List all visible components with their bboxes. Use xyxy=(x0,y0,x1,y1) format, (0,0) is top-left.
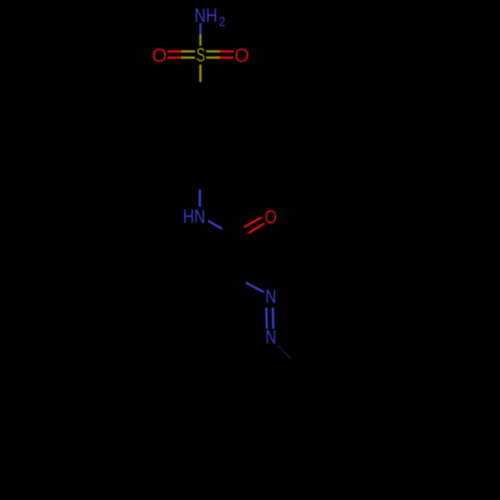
svg-text:O: O xyxy=(235,45,250,67)
benzene ring 1 (carbon bonds, black invisible) xyxy=(163,96,237,182)
svg-text:S: S xyxy=(196,45,205,67)
double bond S=O left, line 2 (olive half) xyxy=(182,56,196,58)
double bond S=O left, line 2 (red half) xyxy=(168,56,182,58)
bond N-C(carbonyl), carbon half black xyxy=(222,229,230,235)
double bond S=O left, line 1 (olive half) xyxy=(182,50,196,52)
bond C(aryl)-N(amide), nitrogen half blue xyxy=(199,190,201,207)
svg-text:O: O xyxy=(152,45,167,67)
svg-text:O: O xyxy=(265,207,277,229)
bond CH-N1 (nitrogen half blue) xyxy=(246,283,264,293)
double bond S=O right, line 2 (red half) xyxy=(220,56,234,58)
svg-text:HN: HN xyxy=(183,206,205,228)
bond N-S (upper half blue) xyxy=(199,23,201,34)
bond C(carbonyl)-CH (black invisible) xyxy=(227,236,229,274)
double bond S=O right, line 1 (olive half) xyxy=(206,50,220,52)
svg-text:N: N xyxy=(265,327,276,349)
bond S-C(aryl) (carbon half, black invisible) xyxy=(199,82,201,96)
bond N2-C(phenyl), nitrogen half very dark blue xyxy=(277,345,292,359)
double bond C=O line 2 (red oxygen half) xyxy=(249,223,265,233)
svg-text:N: N xyxy=(265,286,276,308)
bond N-C(carbonyl), nitrogen half blue xyxy=(208,221,222,229)
double bond N=N line 1 (blue) xyxy=(265,308,268,329)
double bond C=O line 2 (black carbon half) xyxy=(234,233,249,242)
svg-text:2: 2 xyxy=(219,14,226,29)
bond N-S (lower half olive) xyxy=(199,34,201,45)
bond S-C(aryl) (olive half) xyxy=(199,65,201,82)
svg-text:NH: NH xyxy=(194,5,217,27)
double bond C=O line 1 (red oxygen half) xyxy=(244,217,262,227)
bond N2-C(phenyl), carbon half black xyxy=(292,359,307,373)
bond CH-N1 (carbon half black) xyxy=(227,273,246,283)
benzene ring 2 (carbon bonds, black invisible) xyxy=(269,373,343,459)
bond C(aryl)-N(amide), carbon half black xyxy=(199,182,201,190)
double bond S=O right, line 2 (olive half) xyxy=(206,56,220,58)
atom label NH2 (sulfonamide nitrogen) xyxy=(194,5,225,29)
double bond S=O left, line 1 (red half) xyxy=(168,50,182,52)
double bond N=N line 2 (blue) xyxy=(272,308,275,329)
double bond S=O right, line 1 (red half) xyxy=(220,50,234,52)
double bond C=O line 1 (black carbon half) xyxy=(230,227,245,236)
